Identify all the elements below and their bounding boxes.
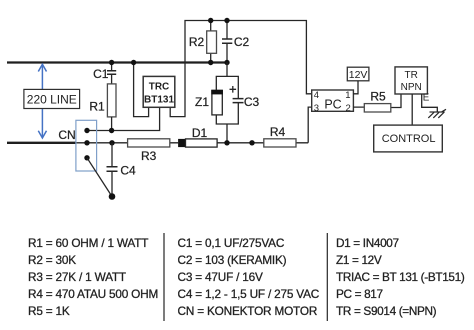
svg-text:E: E <box>423 92 430 103</box>
svg-text:TRIAC = BT 131 (-BT151): TRIAC = BT 131 (-BT151) <box>336 270 465 284</box>
svg-text:CN: CN <box>58 128 75 142</box>
svg-text:3: 3 <box>314 103 319 114</box>
svg-text:1: 1 <box>345 90 350 101</box>
capacitor C1 <box>93 63 116 84</box>
resistor R5 <box>353 89 401 112</box>
svg-text:Z1 = 12V: Z1 = 12V <box>336 253 382 267</box>
node junction dots top wire <box>208 18 213 23</box>
wire 220 top rail <box>7 61 228 63</box>
diode Z1 zener <box>195 90 223 115</box>
svg-text:TR: TR <box>405 70 418 81</box>
node CN connector <box>58 120 96 171</box>
capacitor C3 polarized <box>230 86 260 109</box>
node dot gate top rail <box>131 60 136 65</box>
svg-text:PC: PC <box>324 98 341 112</box>
ground chassis <box>428 109 446 118</box>
wire Z1C3 top stub <box>226 63 228 77</box>
svg-text:D1: D1 <box>192 126 208 140</box>
svg-text:4: 4 <box>314 90 319 101</box>
wire TRC MT1 pin to row1 <box>87 107 160 130</box>
legend divider 2 <box>326 233 328 321</box>
wire TR collector to CONTROL <box>411 94 413 125</box>
legend semiconductor values column <box>336 236 465 318</box>
svg-text:2: 2 <box>346 103 351 114</box>
legend capacitor values column <box>178 236 320 318</box>
node 12V supply box <box>347 67 369 94</box>
svg-text:Z1: Z1 <box>195 95 209 109</box>
wire switch diagonal <box>87 158 112 197</box>
svg-text:R5: R5 <box>370 89 386 103</box>
wire Z1C3 loop <box>216 76 238 142</box>
svg-text:C2 = 103 (KERAMIK): C2 = 103 (KERAMIK) <box>178 253 287 267</box>
svg-text:R4 = 470 ATAU 500 OHM: R4 = 470 ATAU 500 OHM <box>28 287 158 301</box>
wire main row R3 D1 R4 <box>77 107 312 143</box>
svg-text:12V: 12V <box>349 69 368 81</box>
svg-text:R2: R2 <box>189 35 205 49</box>
svg-text:C1: C1 <box>93 67 109 81</box>
svg-text:D1 = IN4007: D1 = IN4007 <box>336 236 399 250</box>
svg-text:TRC: TRC <box>149 81 170 92</box>
svg-text:CONTROL: CONTROL <box>382 133 436 145</box>
wire 220 bottom rail <box>7 142 77 144</box>
node dot C1 top rail <box>109 60 114 65</box>
diode D1 <box>178 126 217 147</box>
wire TRC gate branch <box>134 63 149 117</box>
svg-text:C3: C3 <box>244 95 260 109</box>
legend divider 1 <box>163 233 165 321</box>
node arrow 220 line (blue measurement arrow) <box>38 64 46 138</box>
transistor Q1 TR NPN <box>395 67 427 94</box>
svg-text:C2: C2 <box>234 35 250 49</box>
svg-text:C4: C4 <box>120 163 136 177</box>
resistor R2 <box>189 21 217 63</box>
svg-text:R1 = 60 OHM / 1 WATT: R1 = 60 OHM / 1 WATT <box>28 236 148 250</box>
svg-text:220 LINE: 220 LINE <box>27 92 77 106</box>
svg-text:R3 = 27K / 1 WATT: R3 = 27K / 1 WATT <box>28 270 126 284</box>
wire TR emitter E <box>422 94 438 112</box>
resistor R4 <box>264 125 296 147</box>
svg-text:R3: R3 <box>141 149 157 163</box>
op-amp U2 optocoupler PC <box>312 90 354 114</box>
node CONTROL box <box>374 125 443 152</box>
svg-text:C4 = 1,2 - 1,5 UF / 275 VAC: C4 = 1,2 - 1,5 UF / 275 VAC <box>178 287 320 301</box>
svg-text:R4: R4 <box>270 125 286 139</box>
legend resistor values column <box>28 236 158 318</box>
svg-text:CN = KONEKTOR MOTOR: CN = KONEKTOR MOTOR <box>178 304 318 318</box>
svg-text:NPN: NPN <box>401 82 422 93</box>
svg-text:R1: R1 <box>89 99 105 113</box>
svg-text:R5 = 1K: R5 = 1K <box>28 304 70 318</box>
capacitor C4 <box>107 143 136 197</box>
svg-text:R2 = 30K: R2 = 30K <box>28 253 76 267</box>
svg-text:TR = S9014 (=NPN): TR = S9014 (=NPN) <box>336 304 437 318</box>
node dots row junction second column <box>109 128 114 133</box>
resistor R3 <box>128 139 170 163</box>
op-amp U1 triac module TRC BT131 <box>143 76 175 107</box>
svg-text:C1 = 0,1 UF/275VAC: C1 = 0,1 UF/275VAC <box>178 236 285 250</box>
node junction dots top rail <box>208 60 213 65</box>
svg-text:C3 = 47UF / 16V: C3 = 47UF / 16V <box>178 270 264 284</box>
node junction dots main row <box>224 140 229 145</box>
node motor terminal dot <box>109 193 116 200</box>
node 220 LINE label box <box>24 89 80 108</box>
wire TRC MT2 to top loop to PC pin4 <box>170 21 311 117</box>
svg-text:BT131: BT131 <box>144 94 174 105</box>
capacitor C2 <box>222 21 249 63</box>
svg-text:PC = 817: PC = 817 <box>336 287 383 301</box>
resistor R1 <box>89 84 116 131</box>
